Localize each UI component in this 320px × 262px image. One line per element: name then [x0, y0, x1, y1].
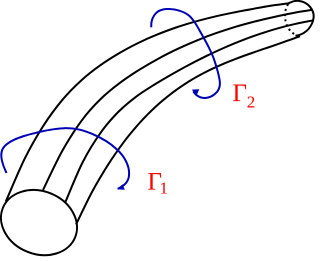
left end cap ellipse: [0, 179, 87, 262]
flux tube inner field line lower: [65, 20, 314, 203]
loop gamma1 arrowhead: [117, 184, 125, 190]
flux tube inner field line upper: [43, 10, 313, 190]
loop gamma1 blue circulation curve: [1, 128, 129, 189]
loop gamma2 arrowhead: [192, 89, 200, 95]
right end cap solid front rim: [289, 1, 314, 36]
flux tube top edge line: [6, 3, 290, 201]
flux tube bottom edge line: [76, 36, 300, 224]
loop gamma2 blue circulation curve: [151, 9, 220, 98]
svg-text:1: 1: [160, 179, 169, 198]
svg-text:Γ: Γ: [233, 80, 247, 107]
svg-text:2: 2: [247, 93, 256, 112]
right end cap dotted hidden rim: [285, 4, 296, 35]
